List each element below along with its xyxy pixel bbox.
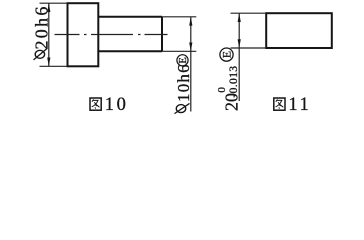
svg-text:20h6: 20h6 — [31, 4, 51, 49]
svg-text:10: 10 — [105, 95, 129, 115]
svg-text:-0.013: -0.013 — [227, 66, 240, 98]
svg-text:0: 0 — [216, 87, 228, 93]
svg-text:11: 11 — [288, 95, 311, 115]
svg-text:10h6: 10h6 — [174, 63, 193, 102]
svg-text:E: E — [219, 51, 233, 58]
svg-text:E: E — [178, 57, 189, 63]
